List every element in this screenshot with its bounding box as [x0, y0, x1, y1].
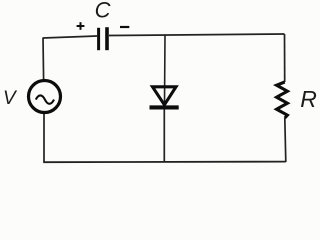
wire top-left segment: [43, 36, 97, 38]
diode D1 cathode bar: [150, 105, 179, 109]
svg-text:C: C: [95, 0, 111, 23]
source V circle: [29, 81, 61, 113]
svg-text:V: V: [3, 88, 18, 109]
plus polarity sign: [77, 22, 85, 30]
capacitor C left plate: [97, 28, 100, 50]
source sine symbol: [36, 95, 54, 103]
minus polarity sign: [120, 26, 129, 28]
wire left vertical lower: [43, 114, 45, 163]
wire top-right segment: [109, 34, 285, 36]
wire right vertical upper: [284, 34, 286, 82]
diode D1 triangle: [153, 87, 177, 105]
svg-text:R: R: [300, 86, 317, 112]
wire diode branch upper: [164, 35, 167, 103]
resistor R zigzag: [277, 82, 288, 118]
wire diode branch lower: [163, 109, 165, 162]
capacitor C right plate: [105, 27, 109, 50]
wire right vertical lower: [285, 118, 286, 162]
wire bottom: [43, 161, 286, 164]
wire left vertical upper: [42, 38, 45, 81]
